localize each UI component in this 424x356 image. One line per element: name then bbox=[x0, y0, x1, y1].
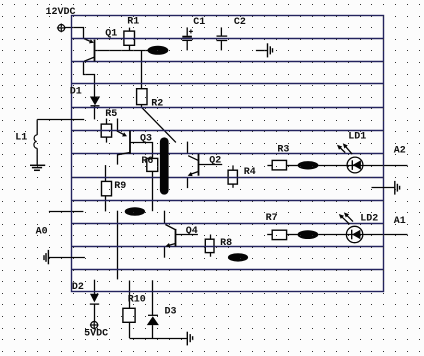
wire R6 bottom to row211 bbox=[152, 171, 154, 211]
label R3 bbox=[277, 145, 289, 156]
bus line 10 bbox=[72, 223, 384, 225]
svg-text:Q2: Q2 bbox=[209, 156, 221, 167]
svg-text:R7: R7 bbox=[266, 213, 278, 224]
resistor R2 bbox=[137, 89, 147, 105]
svg-text:D1: D1 bbox=[70, 87, 82, 98]
node A1 bbox=[394, 216, 406, 227]
resistor R10 bbox=[123, 308, 135, 322]
wire stub below Q3 collector bbox=[117, 154, 119, 165]
label 5VDC bbox=[84, 329, 108, 340]
power symbol 5VDC bbox=[90, 321, 99, 330]
label D1 bbox=[70, 87, 82, 98]
node A2 bbox=[394, 146, 406, 157]
label Q4 bbox=[186, 226, 198, 237]
wire R10 bottom bbox=[129, 322, 131, 338]
bus line 6 bbox=[72, 130, 384, 132]
ground bottom right of D3 bbox=[187, 332, 192, 346]
wire riser row211 down bbox=[117, 211, 119, 280]
svg-text:Q1: Q1 bbox=[105, 28, 117, 39]
label LD2 bbox=[360, 213, 378, 224]
ferrite bead on R3 wire bbox=[298, 161, 319, 169]
label R1 bbox=[127, 17, 139, 28]
label R8 bbox=[220, 238, 232, 249]
ferrite bead on R7 wire bbox=[298, 230, 319, 239]
wire R4 bottom lead bbox=[232, 184, 234, 188]
wire Q4 emitter riser bbox=[164, 211, 166, 224]
LED LD2 bbox=[339, 212, 363, 242]
label L1 bbox=[15, 133, 27, 144]
capacitor C2 bbox=[217, 27, 228, 50]
wire 12VDC to Q1 emitter bbox=[65, 28, 84, 39]
resistor R8 bbox=[205, 239, 214, 252]
wire R5 top lead bbox=[106, 119, 108, 125]
label 12VDC bbox=[46, 7, 76, 18]
svg-text:R8: R8 bbox=[220, 238, 232, 249]
wire R3 left lead bbox=[267, 165, 272, 167]
svg-text:R5: R5 bbox=[105, 109, 117, 120]
resistor R3 bbox=[272, 160, 286, 170]
wire D3 top bbox=[152, 280, 154, 315]
label D2 bbox=[72, 282, 84, 293]
thick bar component near R6 bbox=[160, 137, 169, 194]
svg-text:R2: R2 bbox=[151, 99, 163, 110]
wire R8 top lead bbox=[210, 235, 212, 240]
svg-text:R6: R6 bbox=[141, 156, 153, 167]
power symbol 12VDC bbox=[57, 24, 66, 33]
bus line 11 bbox=[72, 246, 384, 248]
label LD1 bbox=[348, 132, 366, 143]
transistor Q2 bbox=[188, 154, 199, 176]
wire D2 cathode to 5VDC bbox=[94, 304, 96, 321]
wire Q1 base bus bbox=[95, 50, 168, 52]
wire R10 top bbox=[129, 281, 131, 309]
wire R7 left lead bbox=[267, 234, 272, 236]
bus line 4 bbox=[72, 83, 384, 85]
wire R7 to bead bbox=[287, 234, 298, 236]
ground right side mid bbox=[372, 181, 400, 195]
svg-text:R10: R10 bbox=[128, 295, 146, 306]
resistor R4 bbox=[228, 170, 237, 184]
wire Q2 collector stub bbox=[187, 178, 189, 189]
wire bead to LD1 to A2 bbox=[318, 165, 407, 167]
resistor R6 bbox=[147, 158, 158, 171]
bus line 9 bbox=[72, 200, 384, 202]
svg-text:LD2: LD2 bbox=[360, 213, 378, 224]
node A0 bbox=[36, 227, 48, 238]
wire bead to LD2 to A1 bbox=[318, 234, 407, 236]
bus line 2 bbox=[72, 38, 384, 40]
capacitor C1 bbox=[182, 27, 193, 50]
svg-text:12VDC: 12VDC bbox=[46, 7, 76, 18]
svg-text:R3: R3 bbox=[277, 145, 289, 156]
resistor R1 bbox=[124, 31, 135, 45]
diode D3 bbox=[147, 315, 159, 325]
bus line 3 bbox=[72, 61, 384, 63]
ground right of C2 bbox=[256, 43, 273, 57]
wire D1 cathode to row119 bbox=[94, 106, 96, 120]
label R5 bbox=[105, 109, 117, 120]
label R9 bbox=[114, 181, 126, 192]
wire R4 top lead bbox=[232, 165, 234, 170]
svg-text:D3: D3 bbox=[165, 307, 177, 318]
label C2 bbox=[234, 17, 246, 28]
schematic border frame bbox=[72, 16, 384, 292]
wire R9 bottom lead bbox=[105, 196, 107, 212]
label R7 bbox=[266, 213, 278, 224]
svg-text:D2: D2 bbox=[72, 282, 84, 293]
wire D3 bottom bbox=[152, 325, 154, 338]
wire Q1 collector down bbox=[84, 62, 95, 97]
wire R5 bottom lead bbox=[106, 137, 108, 142]
wire node A0 entry bbox=[49, 211, 84, 213]
inductor L1 bbox=[34, 120, 84, 166]
svg-text:C1: C1 bbox=[193, 17, 205, 28]
svg-text:5VDC: 5VDC bbox=[84, 329, 108, 340]
wire Q2 emitter riser bbox=[187, 142, 189, 154]
svg-text:A2: A2 bbox=[394, 146, 406, 157]
ground left side A0 area bbox=[44, 250, 85, 264]
wire Q3 base to R6 bbox=[130, 143, 152, 159]
svg-text:R1: R1 bbox=[127, 17, 139, 28]
wire Q4 collector stub bbox=[164, 247, 166, 258]
svg-text:Q4: Q4 bbox=[186, 226, 198, 237]
bus line 5 bbox=[72, 107, 384, 109]
svg-text:R9: R9 bbox=[114, 181, 126, 192]
transistor Q4 bbox=[165, 225, 175, 248]
label Q2 bbox=[209, 156, 221, 167]
label Q1 bbox=[105, 28, 117, 39]
wire riser to bus6 bbox=[117, 119, 119, 131]
resistor R7 bbox=[272, 230, 286, 239]
diode D2 bbox=[90, 294, 99, 304]
ferrite bead FB1 bbox=[147, 46, 168, 55]
label Q3 bbox=[140, 134, 152, 145]
svg-text:A1: A1 bbox=[394, 216, 406, 227]
svg-text:Q3: Q3 bbox=[140, 134, 152, 145]
transistor Q3 bbox=[117, 131, 130, 155]
label R6 bbox=[141, 156, 153, 167]
wire bottom rail to ground bbox=[130, 338, 188, 340]
wire R9 top lead bbox=[105, 165, 107, 181]
wire R1 bottom lead bbox=[129, 45, 131, 50]
resistor R9 bbox=[102, 181, 112, 195]
wire R2 bottom diagonal to Q2 bbox=[142, 105, 176, 143]
bus line 12 bbox=[72, 269, 384, 271]
svg-text:L1: L1 bbox=[15, 133, 27, 144]
label C1 bbox=[193, 17, 205, 28]
bus line 8 bbox=[72, 177, 384, 179]
wire R3 to bead bbox=[287, 165, 298, 167]
wire R8 bottom lead bbox=[210, 253, 212, 257]
wire Q2 base lead bbox=[199, 164, 222, 166]
transistor Q1 bbox=[84, 39, 94, 62]
wire R2 riser bbox=[141, 51, 143, 89]
bus line 7 bbox=[72, 153, 384, 155]
label R2 bbox=[151, 99, 163, 110]
label D3 bbox=[165, 307, 177, 318]
label R4 bbox=[244, 167, 256, 178]
label R10 bbox=[128, 295, 146, 306]
svg-text:LD1: LD1 bbox=[348, 132, 366, 143]
diode D1 bbox=[90, 97, 100, 106]
resistor R5 bbox=[101, 124, 111, 137]
wire Q4 base lead bbox=[176, 234, 198, 236]
ferrite bead row211 bbox=[125, 207, 145, 216]
svg-text:C2: C2 bbox=[234, 17, 246, 28]
ground under L1 bbox=[30, 165, 45, 170]
LED LD1 bbox=[337, 143, 363, 173]
wire R1 top lead bbox=[129, 28, 131, 32]
wire D2 anode bbox=[94, 280, 96, 294]
svg-text:R4: R4 bbox=[244, 167, 256, 178]
ferrite bead below R8 bbox=[228, 253, 248, 261]
